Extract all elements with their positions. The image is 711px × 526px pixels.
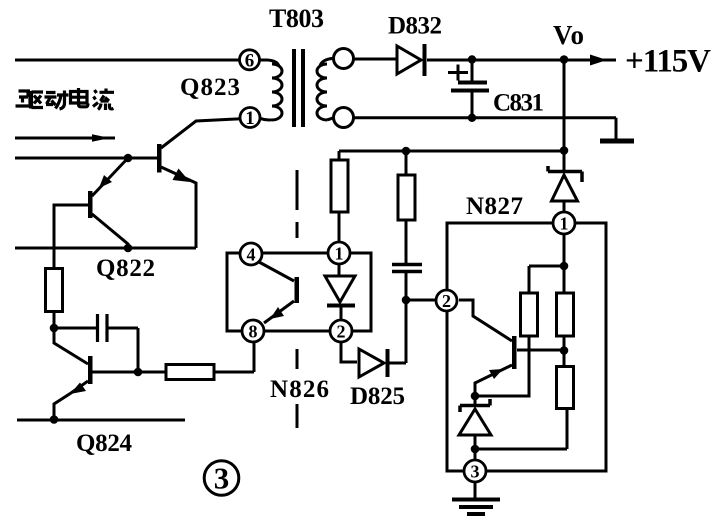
node feedback rail / Vo sense junction: [560, 146, 569, 155]
node C831 negative junction: [468, 114, 476, 122]
svg-text:C831: C831: [493, 90, 544, 117]
svg-text:N827: N827: [466, 193, 523, 220]
wire R1 bottom to Q824 base: [54, 312, 88, 365]
svg-text:Q822: Q822: [96, 255, 155, 282]
pin 1 N827: [553, 212, 575, 234]
pin 8 N826: [242, 320, 264, 342]
wire bottom node to R7 and pin 3: [475, 409, 567, 461]
node Q823 base junction: [124, 154, 133, 163]
svg-text:1: 1: [335, 244, 344, 264]
wire into Q823 base: [15, 157, 157, 160]
wire R4 leads: [405, 151, 408, 264]
wire R5 bottom to emitter node: [475, 336, 529, 396]
regulator N827 outline loop: [447, 223, 606, 471]
transistor Q823: [157, 119, 241, 248]
resistor R1 (Q822 base leg): [46, 269, 63, 312]
resistor R4: [398, 175, 415, 220]
svg-text:Vo: Vo: [553, 20, 584, 50]
transformer T803 secondary winding: [317, 58, 334, 120]
pin 1 T803: [240, 108, 260, 130]
svg-text:6: 6: [245, 50, 255, 71]
wire bottom-left emitter rail: [17, 419, 185, 422]
resistor R3 (LED series): [331, 160, 348, 212]
zener diode inside N827: [459, 396, 491, 449]
ground (top right): [600, 139, 634, 144]
capacitor C1 (speed-up): [54, 314, 138, 372]
resistor R5 (N827 left): [521, 293, 538, 336]
pin 6 T803: [240, 50, 260, 72]
node Q824 collector junction: [134, 368, 143, 377]
diode D832: [354, 44, 425, 76]
svg-text:3: 3: [214, 461, 230, 496]
svg-text:Q824: Q824: [76, 430, 133, 457]
figure number 3: [204, 461, 239, 496]
pin 4 N826: [240, 243, 262, 265]
wire R2 leads to N826 pin 8: [138, 342, 254, 372]
ground (bottom): [452, 482, 500, 514]
capacitor C831 (electrolytic, with + mark): [448, 60, 489, 118]
phototransistor inside N826: [259, 262, 299, 323]
svg-text:2: 2: [337, 322, 346, 342]
svg-text:4: 4: [247, 245, 256, 265]
node N827 emitter junction: [471, 392, 480, 401]
svg-text:1: 1: [560, 214, 569, 234]
dashed isolation line: [296, 170, 299, 428]
secondary terminal bottom: [334, 108, 354, 128]
pin 1 N826: [328, 242, 350, 264]
secondary terminal top: [334, 49, 354, 69]
wire Vo sense vertical: [563, 60, 566, 150]
svg-text:1: 1: [245, 108, 255, 129]
pin 2 N826: [330, 320, 352, 342]
LED inside N826: [325, 264, 355, 320]
wire feedback rail: [339, 150, 564, 153]
wire C2 bottom to N827 pin 2: [406, 271, 435, 300]
optocoupler N826 box: [227, 253, 371, 331]
transistor Q822: [54, 158, 128, 269]
diode D825: [341, 300, 406, 377]
node Q822 collector junction: [124, 244, 133, 253]
svg-text:N826: N826: [270, 376, 329, 403]
svg-text:2: 2: [442, 291, 451, 311]
node C831 positive junction: [468, 55, 476, 63]
svg-text:+115V: +115V: [625, 44, 711, 80]
wire R3 leads: [338, 151, 341, 242]
svg-text:3: 3: [471, 462, 480, 482]
resistor R7 (N827 right bottom): [557, 367, 574, 409]
node N827 bottom junction: [471, 445, 480, 454]
wire N827 pin 1 to divider top: [529, 234, 564, 293]
svg-text:Q823: Q823: [180, 74, 240, 101]
wire Q822 collector row: [15, 247, 196, 250]
svg-text:D825: D825: [350, 383, 405, 410]
svg-text:T803: T803: [269, 4, 324, 33]
node R1 bottom junction: [50, 324, 59, 333]
node divider top junction: [560, 262, 569, 271]
wire +115V output rail: [427, 59, 616, 62]
svg-text:8: 8: [249, 322, 258, 342]
transistor inside N827: [459, 300, 564, 396]
node Vo junction: [560, 55, 569, 64]
pin 3 N827: [464, 460, 486, 482]
wire secondary return to ground: [354, 118, 617, 139]
node Q824 emitter junction: [50, 415, 59, 424]
transformer core: [294, 49, 303, 127]
wire with current-direction arrow: [15, 134, 115, 142]
arrow +115V output: [590, 55, 607, 66]
resistor R6 (N827 right top): [557, 293, 574, 336]
zener diode (above N827 pin 1): [548, 150, 582, 213]
wire R6 leads: [563, 266, 566, 367]
pin 2 N827: [436, 290, 457, 311]
wire drive input top rail to T803 pin 6: [15, 59, 241, 62]
transformer T803 primary winding: [260, 60, 283, 120]
capacitor C2: [392, 265, 422, 272]
node C2 / D825 / pin2 junction: [402, 296, 411, 305]
node feedback rail / R4 junction: [402, 147, 411, 156]
label drive current (Chinese characters drawn as strokes): [16, 88, 115, 110]
svg-text:D832: D832: [388, 13, 442, 40]
resistor R2 (series to N826 pin 8): [166, 365, 214, 380]
transistor Q824: [54, 356, 138, 420]
node N827 collector junction: [560, 346, 569, 355]
